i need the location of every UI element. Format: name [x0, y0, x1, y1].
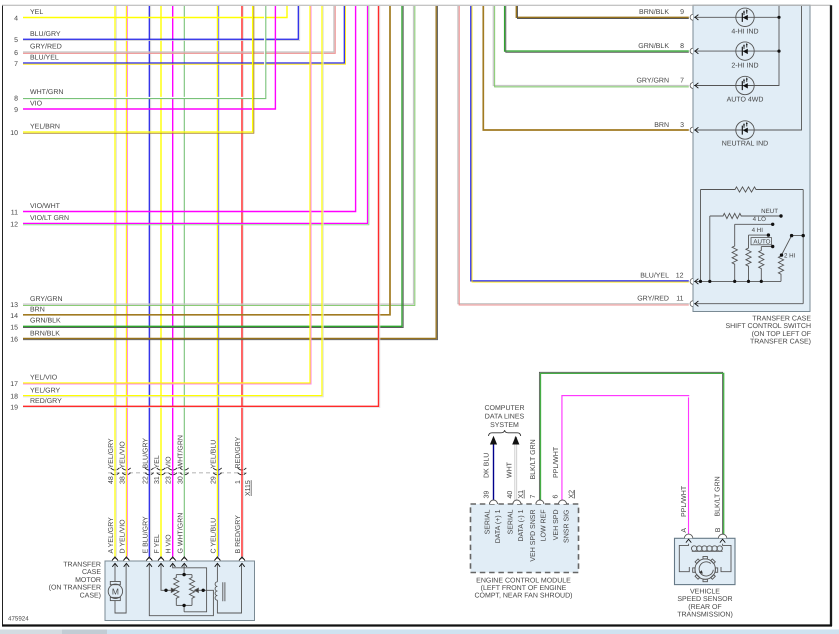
svg-text:BRN: BRN	[654, 122, 669, 129]
svg-text:1: 1	[235, 480, 242, 484]
svg-text:8: 8	[14, 96, 18, 103]
svg-text:31: 31	[154, 476, 161, 484]
svg-text:VIO: VIO	[30, 101, 43, 108]
svg-text:SHIFT CONTROL SWITCH: SHIFT CONTROL SWITCH	[725, 323, 811, 330]
svg-text:4 LO: 4 LO	[753, 216, 767, 223]
svg-text:9: 9	[680, 9, 684, 16]
svg-text:H VIO: H VIO	[166, 534, 173, 554]
svg-text:TRANSFER: TRANSFER	[63, 562, 101, 569]
svg-text:SNSR SIG: SNSR SIG	[563, 510, 570, 543]
svg-text:3: 3	[680, 122, 684, 129]
svg-text:(ON TRANSFER: (ON TRANSFER	[49, 584, 101, 592]
svg-text:YEL/BRN: YEL/BRN	[30, 123, 60, 131]
svg-text:12: 12	[10, 221, 18, 228]
svg-text:(REAR OF: (REAR OF	[688, 603, 721, 611]
svg-text:4 HI: 4 HI	[752, 227, 764, 234]
svg-text:X2: X2	[568, 490, 575, 499]
svg-text:4-HI IND: 4-HI IND	[731, 28, 758, 35]
svg-text:17: 17	[10, 381, 18, 388]
svg-text:YEL: YEL	[30, 9, 43, 16]
svg-text:38: 38	[119, 476, 126, 484]
svg-text:WHT/GRN: WHT/GRN	[30, 88, 63, 96]
svg-text:TRANSFER CASE: TRANSFER CASE	[752, 316, 811, 323]
svg-text:VIO: VIO	[166, 456, 173, 469]
svg-text:SERIAL: SERIAL	[508, 509, 515, 534]
svg-text:6: 6	[14, 50, 18, 57]
svg-text:DATA (-) 1: DATA (-) 1	[517, 509, 525, 541]
svg-text:GRY/RED: GRY/RED	[637, 295, 669, 303]
svg-text:VEH SPD: VEH SPD	[553, 510, 560, 541]
svg-text:475924: 475924	[8, 616, 29, 623]
svg-text:39: 39	[484, 491, 491, 499]
svg-text:YEL: YEL	[154, 455, 161, 468]
svg-text:PPL/WHT: PPL/WHT	[680, 485, 688, 517]
svg-text:5: 5	[14, 37, 18, 44]
svg-text:VIO/WHT: VIO/WHT	[30, 202, 61, 210]
svg-text:8: 8	[680, 43, 684, 50]
svg-text:D YEL/VIO: D YEL/VIO	[118, 519, 126, 554]
svg-text:F YEL: F YEL	[154, 534, 161, 553]
svg-text:AUTO 4WD: AUTO 4WD	[727, 97, 764, 104]
svg-text:GRY/RED: GRY/RED	[30, 43, 62, 51]
svg-text:YEL/VIO: YEL/VIO	[118, 441, 126, 469]
svg-text:RED/GRY: RED/GRY	[30, 397, 62, 405]
svg-text:YEL/BLU: YEL/BLU	[209, 440, 217, 469]
svg-text:GRY/GRN: GRY/GRN	[636, 76, 669, 84]
svg-text:14: 14	[10, 313, 18, 320]
svg-text:10: 10	[10, 130, 18, 137]
svg-text:(ON TOP LEFT OF: (ON TOP LEFT OF	[752, 330, 811, 338]
svg-text:SYSTEM: SYSTEM	[490, 422, 519, 429]
svg-text:11: 11	[11, 210, 18, 217]
svg-text:RED/GRY: RED/GRY	[234, 436, 242, 468]
svg-text:YEL/GRY: YEL/GRY	[107, 438, 115, 469]
svg-text:12: 12	[676, 273, 684, 280]
svg-text:COMPUTER: COMPUTER	[484, 405, 524, 412]
svg-text:NEUTRAL IND: NEUTRAL IND	[722, 141, 768, 148]
svg-text:A YEL/GRY: A YEL/GRY	[107, 517, 115, 554]
svg-text:BRN/BLK: BRN/BLK	[30, 330, 60, 338]
svg-text:48: 48	[108, 476, 115, 484]
svg-text:BLU/YEL: BLU/YEL	[640, 272, 669, 280]
svg-text:SPEED SENSOR: SPEED SENSOR	[677, 596, 732, 603]
svg-text:E BLU/GRY: E BLU/GRY	[141, 516, 149, 554]
svg-text:30: 30	[177, 476, 184, 484]
svg-text:7: 7	[14, 61, 18, 68]
svg-text:2-HI IND: 2-HI IND	[731, 62, 758, 69]
svg-text:BLU/GRY: BLU/GRY	[141, 438, 149, 469]
svg-text:7: 7	[680, 77, 684, 84]
svg-text:11: 11	[676, 296, 683, 303]
svg-text:VIO/LT GRN: VIO/LT GRN	[30, 214, 69, 222]
svg-text:MOTOR: MOTOR	[75, 577, 101, 584]
svg-text:TRANSMISSION): TRANSMISSION)	[677, 611, 733, 619]
svg-text:YEL/VIO: YEL/VIO	[30, 374, 58, 382]
svg-text:C YEL/BLU: C YEL/BLU	[209, 518, 217, 554]
svg-text:YEL/GRY: YEL/GRY	[30, 386, 61, 394]
svg-text:18: 18	[10, 394, 18, 401]
svg-text:40: 40	[507, 491, 514, 499]
svg-text:7: 7	[530, 495, 537, 499]
svg-text:29: 29	[210, 476, 217, 484]
svg-text:16: 16	[10, 337, 18, 344]
svg-text:SERIAL: SERIAL	[484, 509, 491, 534]
svg-text:DATA (+) 1: DATA (+) 1	[494, 509, 502, 543]
svg-text:23: 23	[166, 476, 173, 484]
svg-text:PPL/WHT: PPL/WHT	[552, 446, 560, 478]
svg-text:TRANSFER CASE): TRANSFER CASE)	[750, 338, 811, 346]
svg-text:LOW REF: LOW REF	[541, 510, 548, 542]
svg-text:13: 13	[10, 302, 18, 309]
svg-text:BLU/YEL: BLU/YEL	[30, 54, 59, 62]
svg-text:4: 4	[14, 16, 18, 23]
svg-text:WHT/GRN: WHT/GRN	[176, 435, 184, 468]
svg-text:BLK/LT GRN: BLK/LT GRN	[529, 439, 537, 479]
svg-text:6: 6	[553, 495, 560, 499]
svg-text:M: M	[112, 586, 119, 596]
svg-text:X1: X1	[518, 490, 525, 499]
svg-text:COMPT, NEAR FAN SHROUD): COMPT, NEAR FAN SHROUD)	[474, 592, 572, 600]
svg-text:2 HI: 2 HI	[784, 252, 796, 259]
svg-text:GRN/BLK: GRN/BLK	[30, 317, 61, 325]
svg-text:CASE): CASE)	[80, 591, 101, 599]
svg-text:VEH SPD SNSR: VEH SPD SNSR	[530, 510, 537, 562]
svg-text:BLU/GRY: BLU/GRY	[30, 30, 61, 38]
svg-text:A: A	[681, 528, 688, 533]
svg-text:9: 9	[14, 107, 18, 114]
svg-text:X115: X115	[245, 480, 252, 496]
svg-text:CASE: CASE	[82, 569, 101, 576]
svg-text:BRN: BRN	[30, 307, 45, 314]
svg-text:DK BLU: DK BLU	[484, 453, 491, 478]
svg-text:NEUT: NEUT	[761, 208, 778, 215]
svg-text:BLK/LT GRN: BLK/LT GRN	[714, 476, 722, 516]
svg-text:VEHICLE: VEHICLE	[690, 589, 720, 596]
svg-text:WHT: WHT	[507, 461, 514, 478]
svg-text:B RED/GRY: B RED/GRY	[234, 515, 242, 554]
svg-text:BRN/BLK: BRN/BLK	[639, 8, 669, 16]
svg-text:GRY/GRN: GRY/GRN	[30, 295, 63, 303]
svg-text:(LEFT FRONT OF ENGINE: (LEFT FRONT OF ENGINE	[481, 584, 567, 592]
svg-text:B: B	[715, 527, 722, 532]
svg-text:19: 19	[10, 404, 18, 411]
svg-text:AUTO: AUTO	[753, 238, 770, 245]
svg-text:22: 22	[142, 476, 149, 484]
svg-text:DATA LINES: DATA LINES	[485, 414, 525, 421]
svg-text:G WHT/GRN: G WHT/GRN	[176, 513, 184, 554]
svg-text:GRN/BLK: GRN/BLK	[638, 42, 669, 50]
svg-text:15: 15	[10, 324, 18, 331]
svg-text:ENGINE CONTROL MODULE: ENGINE CONTROL MODULE	[476, 577, 571, 584]
